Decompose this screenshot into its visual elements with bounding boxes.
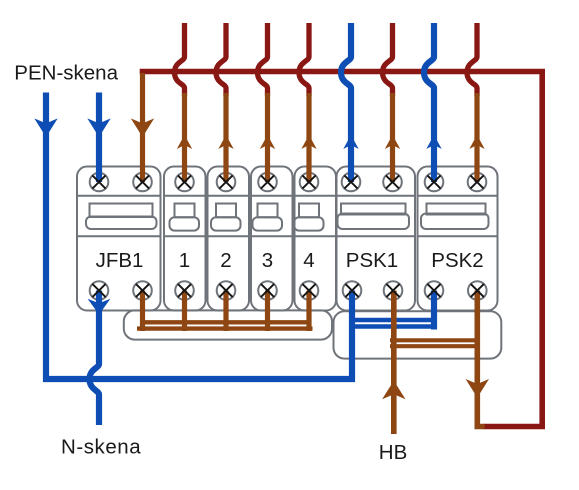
breaker PSK2 body: [418, 167, 498, 311]
wire: left bus box lower brown link: [137, 326, 313, 330]
terminal PSK2 top-left: [425, 173, 444, 192]
wire: left bus box upper brown link: [143, 320, 310, 324]
wire: JFB1 bottom-right stub into left bus box (brown): [140, 291, 145, 332]
svg-text:PSK1: PSK1: [346, 249, 398, 272]
wire: phase to PSK2 top-right (dark red with hop over bus): [467, 23, 477, 96]
wire: N-skena drop from JFB1 bottom-left (blue with hop over bottom bus): [90, 291, 100, 426]
terminal JFB1 bottom-right: [133, 281, 152, 300]
X PSK1 top-right: [386, 175, 399, 188]
terminal PSK2 bottom-right: [468, 281, 487, 300]
terminal module2 bottom: [217, 281, 236, 300]
X PSK2 bottom-right: [471, 284, 484, 297]
arrow: PSK1 phase (small brown up): [385, 135, 400, 149]
wire: neutral feed to PSK1 top-left (blue with hop over bus): [341, 23, 351, 182]
X module3 top: [261, 175, 274, 188]
terminal X marks: [92, 175, 484, 297]
svg-text:2: 2: [220, 249, 231, 272]
terminal PSK2 bottom-left: [425, 281, 444, 300]
wire: module3 bottom stub (brown): [265, 291, 270, 332]
X module3 bottom: [261, 284, 274, 297]
X module2 bottom: [219, 284, 232, 297]
breaker PSK1 body: [337, 167, 416, 311]
arrow: PSK2 neutral (small blue up): [426, 135, 441, 149]
terminal module3 top: [258, 173, 277, 192]
arrow: PSK1 neutral (small blue up): [343, 135, 358, 149]
wire: blue link PSK1 to PSK2 upper: [352, 318, 437, 323]
X PSK1 bottom-right: [386, 284, 399, 297]
wire: module2 bottom stub (brown): [223, 291, 228, 332]
X JFB1 bottom-right: [136, 284, 149, 297]
arrow: module1 circuit (small brown up): [177, 135, 192, 149]
X PSK2 top-right: [470, 175, 483, 188]
breaker module 2 body: [208, 167, 250, 311]
terminal JFB1 top-left: [90, 173, 109, 192]
bus-bar cover box right: [334, 311, 502, 358]
wire: phase to PSK1 top-right (dark red with hop over bus): [383, 23, 393, 96]
arrow: JFB1 brown feed (big brown down): [131, 118, 154, 137]
wire: blue link PSK1 to PSK2 lower: [352, 324, 437, 329]
wire: PEN riser 1 down, along bottom to PSK1 bottom-left (blue): [46, 93, 352, 380]
arrow: PEN riser 2 (big blue down): [87, 118, 110, 137]
wire: brown drop into PSK2 top-right: [474, 93, 479, 182]
bus-bar cover box left: [124, 310, 332, 339]
wire: PSK2 bottom-right drop to bottom-right corner (brown): [477, 291, 484, 427]
wire: neutral feed to PSK2 top-left (blue with hop over bus): [424, 23, 434, 182]
svg-text:PSK2: PSK2: [431, 249, 483, 272]
terminal JFB1 bottom-left: [90, 281, 109, 300]
terminal module1 top: [175, 173, 194, 192]
arrow: module2 circuit (small brown up): [218, 135, 233, 149]
terminal module2 top: [217, 173, 236, 192]
wire: PEN riser 2 into JFB1 top-left (blue): [96, 93, 102, 183]
wire: phase L3 vertical to module3 (dark red with hop over bus): [258, 23, 268, 96]
terminal PSK1 top-left: [342, 173, 361, 192]
wire: brown drop into module1 top: [182, 93, 187, 182]
X JFB1 top-left: [92, 175, 105, 188]
wire: brown drop into module3 top: [265, 93, 270, 182]
X JFB1 bottom-left: [92, 284, 105, 297]
terminal PSK1 bottom-left: [343, 281, 362, 300]
svg-text:3: 3: [262, 249, 273, 272]
arrow: PSK2 phase out (big brown down): [466, 379, 489, 398]
terminal module4 top: [300, 173, 319, 192]
wire: brown feed into JFB1 top-right (from bus corner): [140, 73, 145, 182]
X PSK2 top-left: [427, 175, 440, 188]
X PSK2 bottom-left: [427, 284, 440, 297]
breaker JFB1 body: [77, 167, 161, 311]
X module1 bottom: [178, 284, 191, 297]
arrow: module3 circuit (small brown up): [260, 135, 275, 149]
arrow: PEN riser 1 (big blue down): [34, 118, 57, 137]
arrow: HB feed (big brown up): [382, 381, 405, 400]
wire: phase L1 vertical to module1 (dark red with hop over bus): [175, 23, 185, 96]
wire: brown drop into module2 top: [223, 93, 228, 182]
terminal PSK1 bottom-right: [384, 281, 403, 300]
terminal circles (white fill, grey ring): [90, 173, 487, 300]
arrow: N-skena (big blue down): [88, 299, 111, 315]
breaker module 1 body: [164, 167, 206, 311]
wire: brown link PSK1 to PSK2 upper: [390, 338, 480, 342]
wire: phase L4 vertical to module4 (dark red with hop over bus): [299, 23, 309, 96]
svg-text:1: 1: [179, 249, 190, 272]
terminal module1 bottom: [175, 281, 194, 300]
breaker module 4 body: [294, 167, 336, 311]
terminal JFB1 top-right: [133, 173, 152, 192]
wire: module1 bottom stub (brown): [182, 291, 187, 332]
terminal module4 bottom: [300, 281, 319, 300]
svg-text:4: 4: [303, 249, 314, 272]
X module2 top: [219, 175, 232, 188]
terminal PSK1 top-right: [383, 173, 402, 192]
svg-text:JFB1: JFB1: [96, 249, 144, 272]
X module4 bottom: [302, 284, 315, 297]
X PSK1 top-left: [344, 175, 357, 188]
svg-text:N-skena: N-skena: [61, 436, 141, 459]
breaker module 3 body: [251, 167, 293, 311]
terminal PSK2 top-right: [468, 173, 487, 192]
wire: brown drop into PSK1 top-right: [390, 93, 395, 182]
arrow: module4 circuit (small brown up): [301, 135, 316, 149]
wire: brown link PSK1 to PSK2 lower: [390, 344, 480, 348]
wire: L-feed dark red bus (top + right side + bottom stub): [140, 72, 543, 427]
X module4 top: [302, 175, 315, 188]
terminal module3 bottom: [258, 281, 277, 300]
svg-text:PEN-skena: PEN-skena: [14, 62, 118, 85]
svg-text:HB: HB: [379, 441, 407, 464]
arrow: PSK2 phase (small brown up): [469, 135, 484, 149]
wire: phase L2 vertical to module2 (dark red with hop over bus): [216, 23, 226, 96]
wire: HB feed up into PSK1 bottom-right (brown): [391, 291, 397, 435]
wire: module4 bottom stub (brown): [306, 291, 311, 332]
X JFB1 top-right: [136, 175, 149, 188]
X PSK1 bottom-left: [345, 284, 358, 297]
X module1 top: [178, 175, 191, 188]
wire: brown drop into module4 top: [306, 93, 311, 182]
wire: PSK2 bottom-left stub (blue): [431, 291, 437, 330]
